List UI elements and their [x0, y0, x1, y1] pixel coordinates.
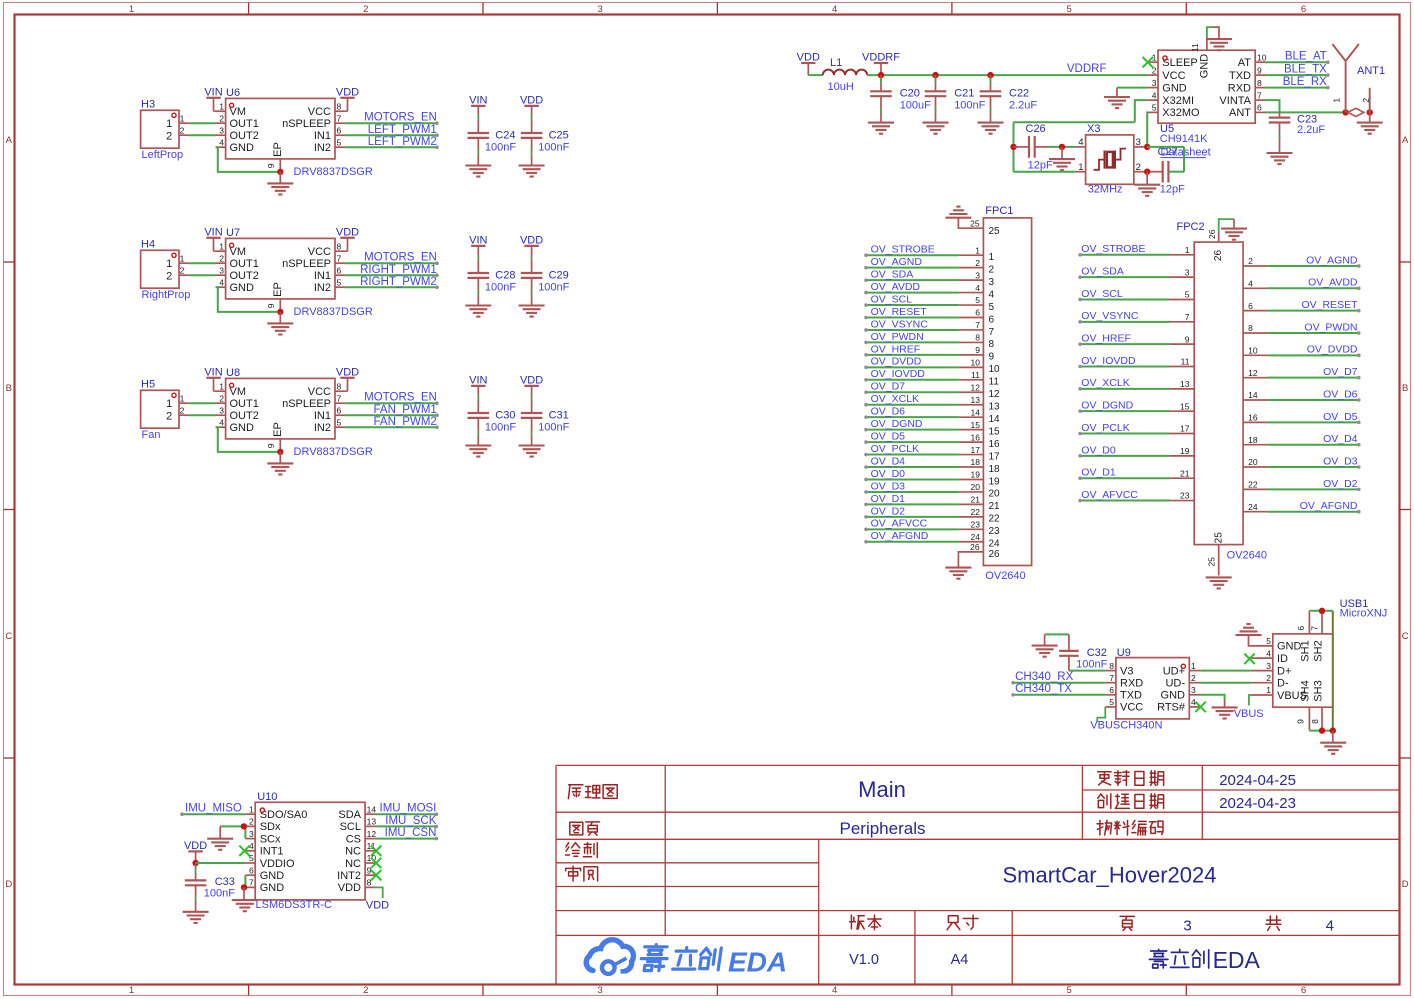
net label OV_SDA (FPC2.3)	[1170, 276, 1194, 278]
svg-text:C26: C26	[1026, 123, 1046, 135]
svg-text:VIN: VIN	[204, 366, 222, 378]
title block	[556, 764, 1400, 766]
svg-text:2: 2	[363, 985, 368, 996]
ground (U5 pin11 loop)	[1213, 27, 1219, 39]
svg-text:17: 17	[989, 451, 1001, 462]
svg-text:5: 5	[1152, 103, 1157, 113]
svg-text:2: 2	[975, 258, 980, 268]
svg-text:C22: C22	[1009, 87, 1029, 99]
svg-text:VDDRF: VDDRF	[1067, 63, 1107, 75]
svg-text:OV_D1: OV_D1	[871, 493, 906, 505]
svg-text:OV_AVDD: OV_AVDD	[871, 281, 921, 293]
net label OV_D7 (FPC2.12)	[1243, 377, 1267, 379]
svg-text:3: 3	[598, 985, 603, 996]
svg-text:OV_PCLK: OV_PCLK	[871, 443, 919, 455]
svg-text:IMU_CSN: IMU_CSN	[385, 827, 437, 839]
svg-text:12: 12	[367, 829, 377, 839]
svg-text:VDD: VDD	[338, 882, 361, 894]
svg-text:9: 9	[1185, 334, 1190, 344]
wire U10.GND pins	[244, 875, 246, 887]
svg-text:3: 3	[219, 265, 224, 275]
net label OV_DVDD (FPC1.10)	[959, 366, 984, 368]
svg-text:NC: NC	[345, 846, 361, 858]
junction node X3.3	[1144, 144, 1150, 150]
wire USB1 shield right	[1332, 611, 1334, 731]
svg-text:X32MI: X32MI	[1162, 95, 1194, 107]
IC U6 DRV8837DSGR	[226, 98, 335, 158]
junction VDD-VDDIO	[192, 860, 198, 866]
svg-text:17: 17	[1180, 424, 1190, 434]
svg-text:1: 1	[1332, 98, 1342, 103]
header H5	[141, 390, 179, 428]
net label OV_D1 (FPC2.21)	[1170, 477, 1194, 479]
svg-text:1: 1	[975, 245, 980, 255]
svg-text:15: 15	[971, 420, 981, 430]
svg-text:IN1: IN1	[314, 130, 331, 142]
ground (U10.SDx)	[219, 826, 221, 838]
wire VDD-U10.VDDIO	[196, 862, 246, 864]
IC U8 DRV8837DSGR	[226, 378, 335, 439]
svg-text:2: 2	[1361, 98, 1371, 103]
junction antenna pin2	[1367, 109, 1373, 115]
svg-text:OV_AGND: OV_AGND	[1306, 254, 1358, 266]
net label CH340_RX	[1013, 682, 1105, 684]
svg-text:VDD: VDD	[336, 226, 359, 238]
svg-text:4: 4	[832, 985, 837, 996]
svg-text:C: C	[5, 631, 12, 642]
wire crystal top rail	[1014, 121, 1135, 123]
svg-text:7: 7	[975, 320, 980, 330]
svg-text:IMU_MISO: IMU_MISO	[185, 803, 242, 815]
svg-text:6: 6	[1301, 4, 1306, 15]
svg-text:OV_D3: OV_D3	[871, 480, 906, 492]
svg-text:SH2: SH2	[1312, 640, 1324, 661]
svg-text:26: 26	[1213, 250, 1224, 262]
ground (FPC1 pin26)	[945, 567, 971, 569]
svg-text:NC: NC	[345, 858, 361, 870]
connector FPC2 OV2640	[1194, 242, 1243, 544]
svg-text:2: 2	[166, 410, 172, 422]
svg-text:11: 11	[1181, 357, 1190, 367]
svg-text:D: D	[5, 879, 12, 890]
capacitor C26 12pF	[1014, 146, 1030, 148]
svg-text:9: 9	[266, 163, 276, 168]
svg-text:8: 8	[337, 241, 342, 251]
svg-text:11: 11	[989, 377, 1000, 388]
svg-text:1: 1	[249, 804, 254, 814]
svg-text:14: 14	[989, 414, 1001, 425]
ground (C22)	[978, 122, 1004, 124]
svg-text:8: 8	[989, 339, 995, 350]
no-connect X USB1.ID	[1244, 654, 1254, 664]
svg-text:GND: GND	[230, 142, 255, 154]
svg-text:OV_D5: OV_D5	[871, 431, 906, 443]
svg-text:OV_D2: OV_D2	[871, 505, 906, 517]
svg-text:VDD: VDD	[520, 235, 543, 247]
net label OV_D2 (FPC1.22)	[959, 516, 984, 518]
svg-text:CH340_RX: CH340_RX	[1015, 671, 1073, 683]
svg-text:IMU_SCK: IMU_SCK	[385, 815, 436, 827]
wire C26-X3.4	[1048, 146, 1075, 148]
svg-text:5: 5	[1066, 985, 1071, 996]
net label OV_D0 (FPC1.19)	[959, 478, 984, 480]
net label OV_PCLK (FPC1.17)	[959, 454, 984, 456]
wire U5.X32MO	[1146, 112, 1149, 146]
wire C32-U9.V3	[1069, 670, 1105, 672]
svg-text:OUT1: OUT1	[230, 118, 259, 130]
svg-text:21: 21	[989, 501, 1001, 512]
net label VBUS (USB1 pin1)	[1249, 695, 1251, 705]
wire VDDRF rail	[867, 74, 1148, 76]
svg-text:1: 1	[989, 252, 995, 263]
svg-text:1: 1	[180, 393, 185, 403]
net label MOTORS_EN (U7)	[345, 262, 437, 264]
ground (C21)	[923, 122, 949, 124]
svg-text:2: 2	[1136, 162, 1141, 173]
ground (U7 EP)	[279, 312, 281, 323]
net label FAN_PWM1	[345, 414, 437, 416]
title cell 尺寸	[947, 916, 960, 930]
net label BLE_RX	[1265, 87, 1328, 89]
svg-text:FAN_PWM1: FAN_PWM1	[374, 404, 437, 416]
net label OV_D2 (FPC2.22)	[1243, 488, 1267, 490]
net label OV_DGND (FPC1.15)	[959, 429, 984, 431]
svg-text:100uF: 100uF	[900, 99, 931, 111]
svg-text:OV_D0: OV_D0	[871, 468, 906, 480]
svg-text:OV_DVDD: OV_DVDD	[871, 356, 922, 368]
ground (C24)	[465, 164, 491, 166]
svg-text:RXD: RXD	[1120, 678, 1143, 690]
svg-text:3: 3	[598, 4, 603, 15]
svg-text:C31: C31	[549, 410, 569, 422]
svg-text:GND: GND	[230, 422, 255, 434]
wire H3.2-U6.OUT2	[189, 134, 216, 136]
svg-text:2024-04-25: 2024-04-25	[1219, 772, 1296, 789]
svg-text:LSM6DS3TR-C: LSM6DS3TR-C	[256, 899, 332, 911]
svg-text:7: 7	[989, 327, 995, 338]
header H3	[141, 110, 179, 148]
svg-text:9: 9	[266, 303, 276, 308]
svg-text:VDD: VDD	[336, 366, 359, 378]
net label OV_D0 (FPC2.19)	[1170, 455, 1194, 457]
svg-text:OV_D6: OV_D6	[871, 406, 906, 418]
capacitor C27 12pF	[1147, 171, 1163, 173]
svg-text:CH340_TX: CH340_TX	[1015, 683, 1072, 695]
svg-text:4: 4	[1078, 137, 1083, 148]
svg-text:SH4: SH4	[1300, 680, 1312, 701]
svg-text:21: 21	[1180, 468, 1190, 478]
svg-text:3: 3	[249, 829, 254, 839]
svg-text:MOTORS_EN: MOTORS_EN	[364, 112, 437, 124]
svg-text:SH3: SH3	[1312, 680, 1324, 701]
svg-text:VCC: VCC	[1120, 702, 1143, 714]
svg-text:VDDRF: VDDRF	[862, 52, 900, 64]
svg-text:4: 4	[989, 289, 995, 300]
title cell 图页	[570, 822, 583, 835]
svg-text:C33: C33	[215, 876, 235, 888]
svg-text:VDD: VDD	[336, 86, 359, 98]
svg-text:10: 10	[1248, 346, 1258, 356]
svg-text:4: 4	[1248, 279, 1253, 289]
capacitor C21 100nF	[935, 75, 937, 91]
svg-text:H3: H3	[141, 99, 155, 111]
svg-text:22: 22	[971, 507, 981, 517]
svg-text:19: 19	[1180, 446, 1190, 456]
junction EP node U6	[277, 169, 283, 175]
svg-text:7: 7	[337, 113, 342, 123]
svg-text:A4: A4	[951, 952, 969, 968]
svg-text:OV_HREF: OV_HREF	[871, 343, 921, 355]
svg-text:7: 7	[337, 253, 342, 263]
capacitor C30 100nF	[468, 412, 490, 414]
svg-text:6: 6	[989, 314, 995, 325]
svg-text:Peripherals: Peripherals	[840, 819, 926, 838]
svg-text:OUT1: OUT1	[230, 258, 259, 270]
svg-text:VCC: VCC	[308, 386, 331, 398]
svg-text:GND: GND	[1161, 690, 1186, 702]
title cell 物料编码	[1097, 820, 1112, 835]
svg-text:U9: U9	[1117, 647, 1131, 659]
svg-text:OV_AVDD: OV_AVDD	[1308, 277, 1358, 289]
junction VDDRF c	[987, 72, 993, 78]
no-connect X U10.NC10	[371, 858, 381, 868]
svg-text:VIN: VIN	[469, 375, 487, 387]
svg-text:8: 8	[975, 333, 980, 343]
net label OV_VSYNC (FPC1.7)	[959, 329, 984, 331]
svg-text:OV2640: OV2640	[985, 570, 1025, 582]
svg-text:5: 5	[989, 302, 995, 313]
svg-text:100nF: 100nF	[485, 422, 516, 434]
svg-text:19: 19	[989, 476, 1001, 487]
svg-text:2: 2	[1248, 256, 1253, 266]
svg-text:BLE_TX: BLE_TX	[1284, 64, 1327, 76]
net label VBUS (U9.VCC)	[1097, 707, 1105, 722]
no-connect X U5.SLEEP	[1143, 57, 1153, 67]
no-connect X U10.INT1	[239, 846, 249, 856]
svg-text:1: 1	[1078, 162, 1083, 173]
capacitor C25 100nF	[521, 132, 543, 134]
svg-text:7: 7	[1257, 90, 1262, 100]
svg-text:1: 1	[1191, 661, 1196, 671]
svg-text:23: 23	[1180, 491, 1190, 501]
svg-text:OV_SDA: OV_SDA	[1081, 266, 1124, 278]
svg-text:6: 6	[249, 865, 254, 875]
svg-text:EP: EP	[272, 142, 284, 157]
svg-text:OV_STROBE: OV_STROBE	[871, 244, 935, 256]
net label OV_D7 (FPC1.12)	[959, 391, 984, 393]
svg-text:32MHz: 32MHz	[1088, 183, 1123, 195]
svg-text:OV_PWDN: OV_PWDN	[1304, 321, 1357, 333]
no-connect X U10.INT2	[371, 870, 381, 880]
wire USB1 shield top	[1309, 610, 1332, 612]
svg-text:RightProp: RightProp	[142, 289, 191, 301]
svg-text:SDx: SDx	[260, 821, 281, 833]
svg-text:OV_D4: OV_D4	[1323, 433, 1358, 445]
svg-text:25: 25	[1214, 532, 1225, 544]
logo JLCEDA text	[640, 945, 722, 971]
svg-text:VDDIO: VDDIO	[260, 858, 295, 870]
svg-text:OV_STROBE: OV_STROBE	[1081, 243, 1145, 255]
net label OV_VSYNC (FPC2.7)	[1170, 321, 1194, 323]
svg-text:LEFT_PWM1: LEFT_PWM1	[368, 124, 437, 136]
title cell 审阅	[566, 866, 581, 881]
svg-text:4: 4	[219, 137, 224, 147]
title cell 页	[1120, 916, 1134, 930]
capacitor C31 100nF	[521, 412, 543, 414]
capacitor C24 100nF	[468, 132, 490, 134]
ground (ANT1)	[1369, 112, 1371, 122]
net label OV_D6 (FPC2.14)	[1243, 399, 1267, 401]
svg-text:OV_SCL: OV_SCL	[1081, 288, 1123, 300]
svg-text:13: 13	[367, 817, 377, 827]
svg-text:IN2: IN2	[314, 142, 331, 154]
junction U10.GND	[241, 884, 247, 890]
svg-text:100nF: 100nF	[204, 888, 235, 900]
ground (C30)	[465, 444, 491, 446]
svg-text:5: 5	[337, 417, 342, 427]
wire H4.1-U7.OUT1	[189, 262, 216, 264]
wire H3.1-U6.OUT1	[189, 122, 216, 124]
svg-text:14: 14	[1248, 390, 1258, 400]
svg-text:18: 18	[971, 457, 981, 467]
svg-text:OV_D3: OV_D3	[1323, 455, 1358, 467]
svg-text:GND: GND	[1198, 54, 1210, 79]
svg-text:U8: U8	[226, 367, 240, 379]
svg-text:VDD: VDD	[797, 52, 820, 64]
wire X3.1 loop	[1014, 171, 1075, 173]
wire U5.X32MI	[1135, 100, 1148, 122]
wire H4.2-U7.OUT2	[189, 274, 216, 276]
net label OV_AFGND (FPC2.24)	[1243, 511, 1267, 513]
svg-text:1: 1	[166, 118, 172, 130]
IC U5 CH9141K	[1158, 50, 1255, 123]
ground (X3.2)	[1146, 172, 1148, 185]
ground (C28)	[465, 304, 491, 306]
svg-text:VCC: VCC	[308, 246, 331, 258]
net label OV_RESET (FPC2.6)	[1243, 310, 1267, 312]
svg-text:VCC: VCC	[308, 106, 331, 118]
net label OV_D4 (FPC2.18)	[1243, 444, 1267, 446]
svg-text:1: 1	[219, 241, 224, 251]
svg-text:18: 18	[989, 464, 1001, 475]
svg-text:C24: C24	[495, 130, 515, 142]
svg-text:VDD: VDD	[366, 899, 389, 911]
svg-text:10: 10	[971, 358, 981, 368]
svg-text:6: 6	[975, 308, 980, 318]
capacitor C20 100uF	[880, 75, 882, 91]
svg-text:7: 7	[1109, 673, 1114, 683]
FPC1 pin26	[958, 552, 983, 568]
junction node C26-right	[1059, 144, 1065, 150]
svg-text:3: 3	[1152, 78, 1157, 88]
svg-text:OV_D7: OV_D7	[1323, 366, 1358, 378]
svg-text:EP: EP	[272, 282, 284, 297]
svg-text:100nF: 100nF	[538, 142, 569, 154]
net label OV_STROBE (FPC1.1)	[959, 254, 984, 256]
net label MOTORS_EN (U8)	[345, 402, 437, 404]
wire H5.1-U8.OUT1	[189, 402, 216, 404]
svg-text:24: 24	[1248, 502, 1258, 512]
svg-text:L1: L1	[830, 57, 842, 69]
capacitor C33 100nF	[195, 863, 197, 880]
ground (C29)	[519, 304, 545, 306]
svg-text:IN1: IN1	[314, 410, 331, 422]
svg-text:FAN_PWM2: FAN_PWM2	[374, 416, 437, 428]
svg-text:1: 1	[166, 258, 172, 270]
wire U9.UD--USB1.D-	[1201, 682, 1251, 684]
svg-text:100nF: 100nF	[1076, 658, 1107, 670]
svg-text:OV_RESET: OV_RESET	[871, 306, 928, 318]
svg-text:OV_D0: OV_D0	[1081, 444, 1116, 456]
svg-text:nSPLEEP: nSPLEEP	[282, 398, 331, 410]
no-connect X U9.RTS#	[1195, 702, 1205, 712]
svg-text:VDD: VDD	[520, 95, 543, 107]
svg-text:OV_IOVDD: OV_IOVDD	[871, 368, 926, 380]
ground (U8 EP)	[279, 452, 281, 463]
USB1 top shield pins	[1308, 611, 1310, 634]
svg-text:4: 4	[1152, 90, 1157, 100]
svg-text:14: 14	[971, 407, 981, 417]
svg-text:V3: V3	[1120, 665, 1133, 677]
net-tie diamond (ANT1)	[1348, 108, 1364, 116]
wire X32MO-C27 loop	[1147, 146, 1184, 148]
svg-text:11: 11	[1190, 43, 1200, 52]
svg-text:8: 8	[337, 381, 342, 391]
junction EP node U8	[277, 449, 283, 455]
svg-text:GND: GND	[230, 282, 255, 294]
svg-text:12: 12	[971, 382, 981, 392]
net label BLE_AT	[1265, 61, 1328, 63]
svg-text:OV_D5: OV_D5	[1323, 411, 1358, 423]
svg-text:OUT2: OUT2	[230, 410, 259, 422]
svg-text:9: 9	[975, 345, 980, 355]
svg-text:OV_D2: OV_D2	[1323, 478, 1358, 490]
svg-text:8: 8	[1257, 78, 1262, 88]
svg-text:nSPLEEP: nSPLEEP	[282, 258, 331, 270]
net label OV_PCLK (FPC2.17)	[1170, 433, 1194, 435]
svg-text:VCC: VCC	[1162, 70, 1185, 82]
svg-text:UD-: UD-	[1165, 678, 1185, 690]
svg-text:FPC2: FPC2	[1177, 221, 1205, 233]
svg-text:3: 3	[1136, 137, 1141, 148]
ground (U9.GND)	[1201, 695, 1225, 700]
svg-text:GND: GND	[260, 882, 285, 894]
svg-text:4: 4	[832, 4, 837, 15]
svg-text:6: 6	[337, 265, 342, 275]
svg-text:20: 20	[971, 482, 981, 492]
svg-text:6: 6	[1301, 985, 1306, 996]
svg-text:C29: C29	[549, 270, 569, 282]
svg-text:7: 7	[1185, 312, 1190, 322]
svg-text:OV_DGND: OV_DGND	[1081, 400, 1133, 412]
svg-text:5: 5	[1266, 636, 1271, 646]
svg-text:1: 1	[166, 398, 172, 410]
svg-text:TXD: TXD	[1120, 690, 1142, 702]
ground (C32)	[1032, 645, 1058, 647]
antenna ANT1	[1345, 61, 1347, 112]
svg-text:4: 4	[1326, 918, 1334, 935]
ground (FPC1 pin25)	[945, 217, 971, 219]
svg-text:5: 5	[1109, 697, 1114, 707]
svg-text:SmartCar_Hover2024: SmartCar_Hover2024	[1003, 863, 1217, 888]
net label OV_DGND (FPC2.15)	[1170, 410, 1194, 412]
title cell 共	[1266, 916, 1281, 931]
svg-text:100nF: 100nF	[485, 142, 516, 154]
svg-text:100nF: 100nF	[538, 282, 569, 294]
IC U9 CH340N	[1116, 658, 1189, 719]
junction VDDRF b	[932, 72, 938, 78]
svg-text:INT2: INT2	[337, 870, 361, 882]
